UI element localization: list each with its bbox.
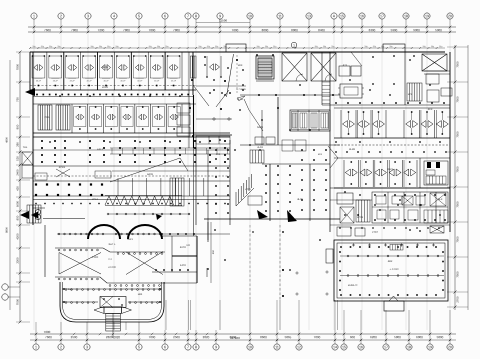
svg-text:390: 390 xyxy=(16,142,20,147)
svg-text:20: 20 xyxy=(448,14,452,18)
svg-text:7800: 7800 xyxy=(16,63,20,70)
svg-text:xT05: xT05 xyxy=(245,188,251,191)
svg-text:4A06: 4A06 xyxy=(147,173,154,176)
svg-text:8800: 8800 xyxy=(6,227,9,233)
svg-text:390: 390 xyxy=(207,45,210,48)
svg-text:750: 750 xyxy=(16,97,20,102)
svg-text:16: 16 xyxy=(359,345,363,349)
svg-text:390: 390 xyxy=(273,45,276,48)
svg-text:6300: 6300 xyxy=(369,28,376,32)
svg-text:2700: 2700 xyxy=(456,296,460,303)
svg-text:390: 390 xyxy=(99,45,102,48)
top dimension line xyxy=(28,26,456,28)
svg-text:7000: 7000 xyxy=(314,335,321,339)
svg-text:8: 8 xyxy=(195,14,197,18)
canopy outline xyxy=(60,282,164,322)
svg-text:38.2F: 38.2F xyxy=(103,79,109,82)
svg-text:2: 2 xyxy=(60,14,62,18)
svg-text:3300: 3300 xyxy=(16,257,20,264)
svg-text:8000: 8000 xyxy=(291,28,298,32)
svg-text:3: 3 xyxy=(87,14,89,18)
svg-text:0.000: 0.000 xyxy=(92,256,99,259)
sub dimension ticks top xyxy=(30,47,445,49)
svg-text:38.2F: 38.2F xyxy=(36,79,42,82)
svg-text:7500: 7500 xyxy=(456,201,460,208)
svg-text:2: 2 xyxy=(60,345,62,349)
svg-text:2500: 2500 xyxy=(71,335,78,339)
svg-text:390: 390 xyxy=(257,45,260,48)
svg-text:4P09: 4P09 xyxy=(357,216,364,219)
svg-text:4T1: 4T1 xyxy=(343,64,348,67)
svg-text:9: 9 xyxy=(215,345,217,349)
svg-text:PD1: PD1 xyxy=(44,116,50,119)
svg-text:4B2: 4B2 xyxy=(388,260,393,263)
svg-text:4x1: 4x1 xyxy=(68,288,73,291)
svg-text:4L08: 4L08 xyxy=(237,98,243,101)
svg-text:38.2F: 38.2F xyxy=(87,79,93,82)
svg-text:8600: 8600 xyxy=(260,335,267,339)
svg-text:520: 520 xyxy=(16,156,20,161)
svg-text:5865: 5865 xyxy=(285,335,292,339)
svg-text:390: 390 xyxy=(57,45,60,48)
svg-text:38.2F: 38.2F xyxy=(120,79,126,82)
svg-text:6: 6 xyxy=(164,345,166,349)
svg-text:5800: 5800 xyxy=(394,335,401,339)
svg-text:4PD1: 4PD1 xyxy=(59,166,66,169)
svg-text:20: 20 xyxy=(448,345,452,349)
svg-text:10: 10 xyxy=(248,345,252,349)
ramp rooms with X xyxy=(59,253,101,275)
grid stems top xyxy=(33,19,35,33)
svg-text:xD3: xD3 xyxy=(238,64,243,67)
svg-text:600: 600 xyxy=(350,335,355,339)
scattered device dots xyxy=(204,64,206,66)
svg-text:7200: 7200 xyxy=(98,28,105,32)
left dimension column xyxy=(19,52,21,322)
svg-text:1: 1 xyxy=(293,43,295,47)
svg-text:38.2F: 38.2F xyxy=(171,79,177,82)
svg-text:xK28: xK28 xyxy=(102,86,108,89)
svg-text:390: 390 xyxy=(423,45,426,48)
svg-text:6600: 6600 xyxy=(16,200,20,207)
svg-text:38.2F: 38.2F xyxy=(137,79,143,82)
svg-text:7600: 7600 xyxy=(44,28,51,32)
svg-text:12: 12 xyxy=(297,345,301,349)
svg-text:38.2F: 38.2F xyxy=(53,79,59,82)
svg-text:4L06: 4L06 xyxy=(297,198,303,201)
svg-text:19: 19 xyxy=(428,345,432,349)
svg-text:AL3: AL3 xyxy=(438,198,443,201)
bottom dimension lines xyxy=(30,333,456,335)
svg-text:4200: 4200 xyxy=(16,233,20,240)
svg-text:7800: 7800 xyxy=(173,28,180,32)
svg-text:4x21: 4x21 xyxy=(127,238,133,241)
svg-text:14: 14 xyxy=(333,345,337,349)
svg-text:2820: 2820 xyxy=(203,335,210,339)
svg-text:5800: 5800 xyxy=(437,335,444,339)
electrical rooms column xyxy=(193,148,195,236)
svg-text:117840: 117840 xyxy=(230,336,240,340)
svg-text:900: 900 xyxy=(16,124,20,129)
svg-text:7500: 7500 xyxy=(456,236,460,243)
grid stems bottom xyxy=(165,300,167,330)
electrical cabinet top xyxy=(256,56,274,79)
svg-text:6: 6 xyxy=(164,14,166,18)
svg-text:xB21: xB21 xyxy=(387,168,393,171)
entrance hall band A xyxy=(191,56,197,78)
svg-text:15: 15 xyxy=(340,14,344,18)
svg-text:5: 5 xyxy=(138,14,140,18)
svg-text:6200: 6200 xyxy=(370,335,377,339)
svg-text:38.2F: 38.2F xyxy=(70,79,76,82)
svg-text:4A1: 4A1 xyxy=(216,153,221,156)
svg-text:17: 17 xyxy=(380,14,384,18)
grid row bubbles bottom xyxy=(33,344,39,350)
svg-text:16: 16 xyxy=(360,14,364,18)
svg-text:14TK: 14TK xyxy=(180,264,186,267)
canopy central stair xyxy=(100,297,126,308)
right middle rooms xyxy=(330,187,450,189)
svg-text:390: 390 xyxy=(41,45,44,48)
svg-text:7500: 7500 xyxy=(456,61,460,68)
svg-text:390: 390 xyxy=(49,45,52,48)
center top rooms xyxy=(240,94,340,96)
svg-text:18: 18 xyxy=(407,345,411,349)
svg-text:7: 7 xyxy=(187,14,189,18)
stairwells with X xyxy=(282,53,307,81)
svg-text:390: 390 xyxy=(323,45,326,48)
svg-text:3: 3 xyxy=(86,345,88,349)
svg-text:390: 390 xyxy=(381,45,384,48)
svg-text:11: 11 xyxy=(275,345,279,349)
big bottom-right hall xyxy=(334,240,448,301)
svg-text:11596: 11596 xyxy=(219,18,227,22)
faint grid lines xyxy=(33,31,35,330)
svg-text:±-0.030: ±-0.030 xyxy=(390,268,399,271)
svg-text:7600: 7600 xyxy=(44,330,51,334)
svg-text:390: 390 xyxy=(107,45,110,48)
svg-text:13: 13 xyxy=(307,14,311,18)
svg-text:390: 390 xyxy=(32,45,35,48)
right dimension column xyxy=(454,45,456,310)
svg-text:18: 18 xyxy=(404,14,408,18)
svg-text:420: 420 xyxy=(16,186,20,191)
svg-text:390: 390 xyxy=(265,45,268,48)
left entrance details xyxy=(22,152,33,165)
top ward row with bed-unit symbols xyxy=(30,89,196,91)
svg-text:8000: 8000 xyxy=(262,28,269,32)
svg-text:9300: 9300 xyxy=(413,28,420,32)
svg-text:8400: 8400 xyxy=(318,28,325,32)
svg-text:390: 390 xyxy=(115,45,118,48)
second ward row xyxy=(33,103,196,105)
svg-text:4L2B: 4L2B xyxy=(349,148,355,151)
svg-text:390: 390 xyxy=(157,45,160,48)
corridor lower wall xyxy=(55,248,165,252)
svg-text:±0.000: ±0.000 xyxy=(108,266,116,269)
svg-text:38.2F: 38.2F xyxy=(154,79,160,82)
svg-text:7800: 7800 xyxy=(71,28,78,32)
building outer walls xyxy=(30,51,445,53)
svg-text:5: 5 xyxy=(138,345,140,349)
svg-text:4B06: 4B06 xyxy=(102,66,109,69)
svg-text:xAL1: xAL1 xyxy=(97,148,103,151)
svg-text:390: 390 xyxy=(91,45,94,48)
svg-text:xPL2: xPL2 xyxy=(92,198,98,201)
svg-text:7000: 7000 xyxy=(16,298,20,305)
center rooms columns of dots xyxy=(195,140,197,225)
svg-text:6000: 6000 xyxy=(416,335,423,339)
svg-text:390: 390 xyxy=(331,45,334,48)
right wing ward row 1 xyxy=(334,107,450,109)
svg-text:2500: 2500 xyxy=(173,335,180,339)
svg-text:11: 11 xyxy=(278,14,282,18)
svg-text:xL8: xL8 xyxy=(348,284,353,287)
svg-text:# 2: # 2 xyxy=(108,258,112,261)
svg-text:7000: 7000 xyxy=(149,335,156,339)
svg-text:450: 450 xyxy=(212,249,215,254)
svg-text:4800: 4800 xyxy=(6,137,9,143)
entrance door arcs xyxy=(88,225,120,239)
mid corridor band xyxy=(33,149,230,151)
svg-text:2400: 2400 xyxy=(16,169,20,176)
svg-text:7600: 7600 xyxy=(232,28,239,32)
svg-text:8: 8 xyxy=(195,345,197,349)
grid column bubbles top xyxy=(31,13,37,19)
right wing ward row 2 xyxy=(334,157,450,159)
svg-text:390: 390 xyxy=(431,45,434,48)
small rooms and hall band B xyxy=(193,95,195,148)
svg-text:4K9: 4K9 xyxy=(428,108,433,111)
svg-text:1: 1 xyxy=(33,14,35,18)
svg-text:390: 390 xyxy=(373,45,376,48)
svg-text:19: 19 xyxy=(425,14,429,18)
svg-text:390: 390 xyxy=(215,45,218,48)
svg-text:6.7 6006: 6.7 6006 xyxy=(236,88,246,91)
svg-text:TAL: TAL xyxy=(23,146,28,149)
svg-text:390: 390 xyxy=(439,45,442,48)
svg-text:7500: 7500 xyxy=(456,131,460,138)
svg-text:7500: 7500 xyxy=(456,166,460,173)
svg-text:850: 850 xyxy=(16,215,20,220)
svg-text:4: 4 xyxy=(113,14,115,18)
top right rooms xyxy=(339,66,350,76)
svg-text:10: 10 xyxy=(248,14,252,18)
svg-text:390: 390 xyxy=(315,45,318,48)
svg-text:5900: 5900 xyxy=(435,28,442,32)
svg-text:7: 7 xyxy=(187,345,189,349)
svg-text:xL5: xL5 xyxy=(318,153,323,156)
center hall lower detail xyxy=(255,137,264,144)
svg-text:xL03: xL03 xyxy=(257,146,263,149)
svg-text:7800: 7800 xyxy=(149,28,156,32)
svg-text:5900: 5900 xyxy=(391,28,398,32)
svg-text:17: 17 xyxy=(384,345,388,349)
svg-text:390: 390 xyxy=(149,45,152,48)
svg-text:7500: 7500 xyxy=(456,96,460,103)
svg-text:xB6: xB6 xyxy=(138,293,143,296)
svg-text:5A2B: 5A2B xyxy=(257,126,264,129)
svg-text:390: 390 xyxy=(389,45,392,48)
courtyard xyxy=(279,225,281,300)
svg-text:7600: 7600 xyxy=(45,335,52,339)
svg-text:BaT L: BaT L xyxy=(109,243,116,246)
svg-text:390: 390 xyxy=(165,45,168,48)
svg-text:7500: 7500 xyxy=(456,271,460,278)
svg-text:xP2: xP2 xyxy=(408,93,413,96)
svg-text:15: 15 xyxy=(342,345,346,349)
svg-text:390: 390 xyxy=(198,45,201,48)
svg-text:390: 390 xyxy=(364,45,367,48)
svg-text:4TD7: 4TD7 xyxy=(372,231,379,234)
svg-text:4L7F: 4L7F xyxy=(352,284,358,287)
svg-text:1:8: 1:8 xyxy=(186,244,190,247)
svg-text:7800: 7800 xyxy=(123,28,130,32)
svg-text:1: 1 xyxy=(35,345,37,349)
